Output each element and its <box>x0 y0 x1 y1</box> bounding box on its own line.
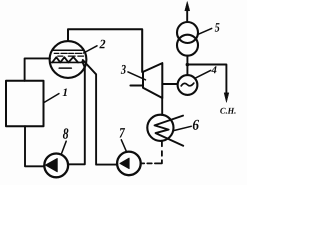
label 6 pointer <box>174 126 192 130</box>
pump 8 <box>44 154 68 178</box>
pump 7 <box>117 152 141 176</box>
label 4 pointer <box>195 70 211 78</box>
label 7 <box>120 128 126 137</box>
label 2 pointer <box>84 46 97 53</box>
wire generator to transformer <box>186 56 188 75</box>
label 1 <box>63 89 67 97</box>
wire steam pipe drum to turbine <box>68 29 142 72</box>
label 1 pointer <box>44 94 59 103</box>
wire dashed drain pump 7 to heater 6 <box>141 162 145 164</box>
heater 6 <box>147 115 173 141</box>
label 4 <box>211 66 216 73</box>
drum evaporator zigzag <box>52 57 78 62</box>
wire to grid with arrow up <box>186 10 188 22</box>
transformer 5 upper winding <box>177 22 198 43</box>
drum water level chord <box>52 49 84 51</box>
generator 4 <box>178 75 198 95</box>
wire downcomer drum to pump 8 <box>68 62 85 165</box>
drum zigzag baseline <box>50 61 83 63</box>
label 7 pointer <box>121 140 126 152</box>
wire boiler 1 bottom to pump 8 <box>25 126 44 166</box>
label 3 <box>121 65 126 74</box>
drum water hatch row 1 <box>54 52 82 54</box>
drum 2 <box>50 41 87 78</box>
label 3 pointer <box>128 72 146 80</box>
transformer 5 lower winding <box>177 35 198 56</box>
wire downcomer drum to pump 7 <box>83 60 117 165</box>
turbine left stub <box>130 85 143 87</box>
drum water hatch row 2 <box>58 55 84 57</box>
wire feed line from boiler 1 top to drum left <box>25 58 50 80</box>
junction dot <box>186 63 190 67</box>
label 6 <box>193 120 199 130</box>
drum lower short line <box>59 67 71 69</box>
label 2 <box>99 40 105 49</box>
wire turbine exhaust to heater 6 <box>161 98 163 115</box>
label 8 pointer <box>62 141 67 153</box>
generator sine wave <box>181 83 194 86</box>
boiler 1 rectangle <box>6 81 44 126</box>
label 5 <box>215 23 220 32</box>
wire branch to station auxiliaries C.H. <box>187 65 226 93</box>
turbine 3 <box>143 63 162 98</box>
label C.H. station auxiliaries <box>220 108 235 114</box>
label 5 pointer <box>198 28 212 34</box>
label 8 <box>63 128 69 138</box>
heater 6 coil zigzag through line <box>155 116 184 146</box>
wire shaft turbine to generator <box>162 83 177 85</box>
